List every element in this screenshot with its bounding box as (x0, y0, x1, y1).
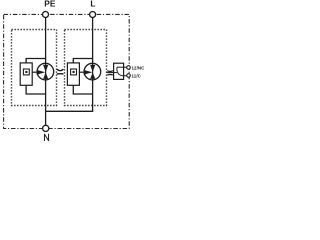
terminal PE circle (43, 12, 49, 18)
wire bottom bus horizontal (46, 110, 94, 112)
contact S1 pivot post (116, 67, 118, 70)
monitoring unit U2 dot (73, 71, 75, 73)
wire contact to terminal 12 (117, 66, 127, 68)
wire PE line vertical (45, 17, 47, 111)
wire branch top right (73, 59, 92, 63)
terminal 12 circle (127, 66, 131, 70)
svg-text:PE: PE (44, 0, 56, 9)
wire U1 to gap F1 (32, 71, 37, 73)
wire branch top left (26, 59, 45, 63)
wire L line vertical (92, 17, 94, 111)
wire U2 to gap F2 (79, 71, 84, 73)
isolating spark gap middle top electrode (57, 69, 64, 71)
spark gap F1 electrodes bowtie (43, 65, 48, 79)
svg-text:L: L (90, 0, 95, 9)
monitoring unit U1 dot (25, 71, 27, 73)
protection module box 2 (dotted) (65, 30, 107, 106)
isolating spark gap right top electrode (107, 70, 113, 73)
spark gap F1 line through (45, 63, 47, 80)
wire signal to contact box (107, 72, 114, 74)
isolating spark gap right bottom electrode (107, 74, 113, 77)
terminal N circle (43, 125, 49, 131)
spark gap F2 circle (84, 63, 101, 80)
monitoring unit U1 box (20, 63, 32, 85)
svg-text:11/C: 11/C (132, 74, 142, 79)
monitoring unit U2 inner square (71, 69, 77, 75)
contact S1 blade (117, 70, 123, 76)
spark gap F1 trigger arrow (37, 70, 46, 75)
remote contact S1 box (114, 63, 124, 79)
spark gap F2 line through (92, 63, 94, 80)
protection module box 1 (dotted) (12, 30, 57, 106)
terminal 11 circle (127, 74, 131, 78)
isolating spark gap middle bottom electrode (57, 73, 64, 75)
wire N drop (45, 111, 47, 125)
wire contact to terminal 11 (122, 75, 126, 77)
svg-text:12/NC: 12/NC (132, 66, 146, 71)
enclosure dash-dot boundary (4, 14, 130, 128)
contact S1 common lead (114, 72, 117, 74)
spark gap F1 circle (37, 63, 54, 80)
spark gap F2 electrodes bowtie (90, 65, 95, 79)
label N (44, 134, 48, 141)
monitoring unit U1 inner square (23, 69, 29, 75)
monitoring unit U2 box (67, 63, 79, 85)
terminal L circle (90, 12, 96, 18)
spark gap F2 trigger arrow (84, 70, 93, 75)
wire branch bottom left (26, 85, 45, 94)
wire branch bottom right (73, 85, 92, 94)
